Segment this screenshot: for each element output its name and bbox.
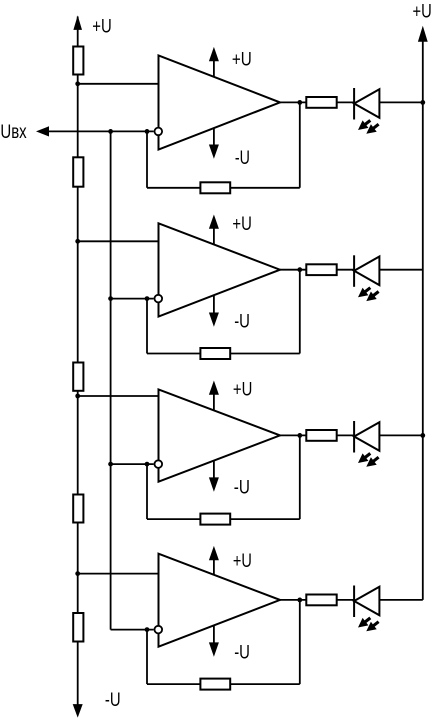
- svg-text:+U: +U: [413, 2, 432, 23]
- svg-text:+U: +U: [232, 49, 252, 70]
- svg-text:+U: +U: [233, 551, 252, 572]
- svg-text:+U: +U: [92, 16, 111, 37]
- svg-text:+U: +U: [233, 379, 252, 400]
- svg-text:-U: -U: [105, 690, 121, 711]
- svg-text:-U: -U: [234, 478, 250, 499]
- svg-text:+U: +U: [232, 214, 251, 235]
- svg-text:-U: -U: [234, 312, 250, 333]
- svg-text:-U: -U: [235, 148, 250, 169]
- svg-text:Uвх: Uвх: [0, 122, 27, 143]
- svg-text:-U: -U: [234, 643, 250, 664]
